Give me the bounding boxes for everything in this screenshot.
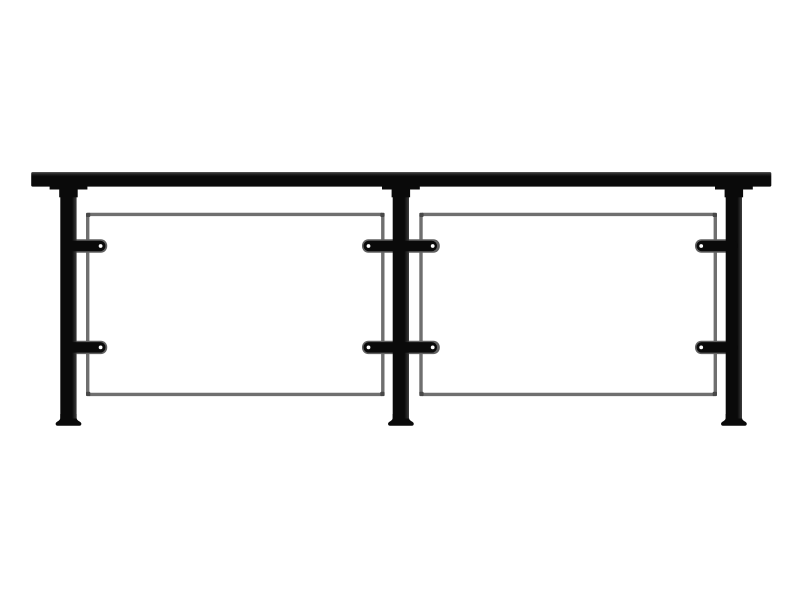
post P1 foot xyxy=(56,414,82,426)
screw hole left row1 post2 xyxy=(367,244,371,248)
post P1 collar xyxy=(59,186,77,197)
post P2 collar xyxy=(392,186,411,197)
post P2 shaft xyxy=(393,186,409,419)
post P3 foot xyxy=(721,414,747,426)
screw hole row1 post1 xyxy=(99,244,103,248)
bracket arm row2 post1 xyxy=(64,342,106,353)
post P1 shaft xyxy=(60,186,76,419)
bracket arm row1 post1 xyxy=(64,241,106,252)
screw hole row2 post3 xyxy=(699,346,703,350)
screw hole row1 post3 xyxy=(699,244,703,248)
screw hole right row1 post2 xyxy=(431,244,435,248)
bracket back plate row2 post2 xyxy=(362,341,440,354)
post P2 foot xyxy=(388,414,414,426)
top rail xyxy=(31,172,771,187)
glass panel G2 top-left corner joint xyxy=(419,213,423,217)
glass panel G2 top-right corner joint xyxy=(713,213,717,217)
glass panel G1 border xyxy=(88,214,383,394)
bracket back plate row1 post1 xyxy=(66,239,107,252)
post P3 shaft xyxy=(726,186,742,419)
post P3 collar xyxy=(725,186,744,197)
bracket arm row2 post2 xyxy=(364,342,438,353)
screw hole row2 post1 xyxy=(99,346,103,350)
glass panel G1 bottom-left corner joint xyxy=(86,392,90,396)
post P2 saddle plate xyxy=(382,186,420,189)
screw hole left row2 post2 xyxy=(367,346,371,350)
bracket arm row1 post2 xyxy=(364,241,438,252)
bracket back plate row2 post3 xyxy=(695,341,736,354)
glass panel G1 top-right corner joint xyxy=(380,213,384,217)
bracket arm row2 post3 xyxy=(697,342,739,353)
bracket back plate row1 post2 xyxy=(362,239,440,252)
glass panel G2 border xyxy=(421,214,715,394)
post P1 saddle plate xyxy=(50,186,88,189)
screw hole right row2 post2 xyxy=(431,346,435,350)
bracket back plate row1 post3 xyxy=(695,239,736,252)
glass panel G1 bottom-right corner joint xyxy=(380,392,384,396)
bracket arm row1 post3 xyxy=(697,241,739,252)
bracket back plate row2 post1 xyxy=(66,341,107,354)
glass panel G2 bottom-right corner joint xyxy=(713,392,717,396)
glass panel G1 top-left corner joint xyxy=(86,213,90,217)
glass panel G2 bottom-left corner joint xyxy=(419,392,423,396)
post P3 saddle plate xyxy=(715,186,753,189)
